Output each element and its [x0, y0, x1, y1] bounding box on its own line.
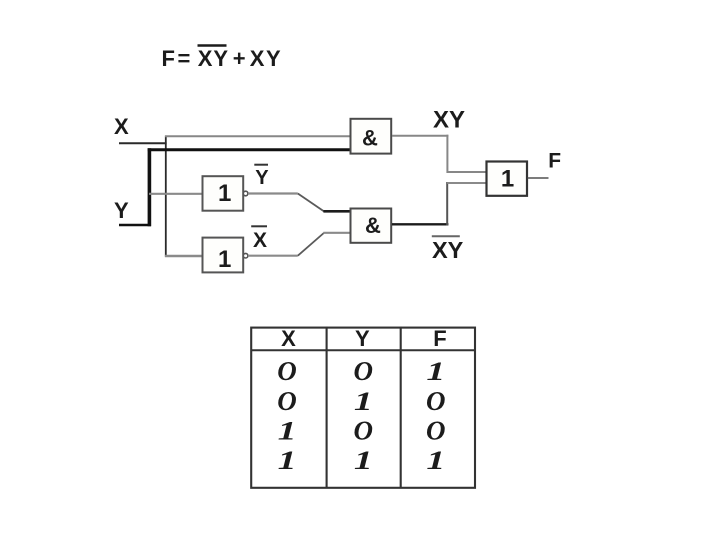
- svg-text:1: 1: [354, 387, 373, 416]
- svg-text:1: 1: [426, 358, 445, 387]
- svg-text:XY: XY: [198, 46, 229, 71]
- svg-text:XY: XY: [250, 46, 282, 71]
- svg-text:O: O: [426, 416, 446, 446]
- svg-text:XY: XY: [433, 107, 465, 134]
- svg-text:X: X: [281, 326, 296, 351]
- svg-text:=: =: [178, 46, 191, 71]
- svg-text:1: 1: [218, 180, 231, 207]
- svg-text:&: &: [362, 125, 378, 150]
- svg-text:F: F: [433, 326, 446, 351]
- svg-text:1: 1: [278, 447, 297, 476]
- svg-text:O: O: [277, 356, 297, 386]
- svg-text:F: F: [162, 46, 175, 71]
- svg-text:&: &: [365, 213, 381, 238]
- svg-text:O: O: [354, 356, 374, 386]
- svg-text:Y: Y: [114, 198, 129, 223]
- svg-text:1: 1: [426, 447, 445, 476]
- svg-text:1: 1: [354, 447, 373, 476]
- svg-text:O: O: [354, 416, 374, 446]
- svg-text:XY: XY: [432, 237, 464, 263]
- svg-text:Y: Y: [255, 167, 269, 189]
- svg-text:+: +: [233, 46, 246, 71]
- svg-text:1: 1: [218, 246, 231, 273]
- svg-text:X: X: [114, 114, 129, 139]
- svg-text:X: X: [253, 229, 267, 252]
- svg-text:1: 1: [278, 417, 297, 446]
- svg-text:Y: Y: [355, 326, 370, 351]
- svg-text:F: F: [548, 150, 561, 173]
- svg-text:O: O: [426, 386, 446, 416]
- svg-text:O: O: [277, 386, 297, 416]
- svg-text:1: 1: [501, 166, 514, 193]
